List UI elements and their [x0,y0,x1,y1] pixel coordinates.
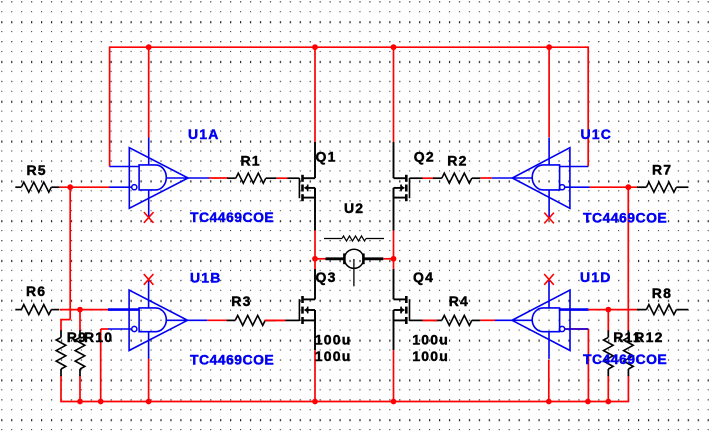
svg-text:100u: 100u [412,348,449,364]
gate driver U1D body [512,290,570,350]
U1C input A stub [560,166,589,168]
no-connect marker X at U1D VDD pin [544,274,554,285]
junction R5-node [67,184,73,190]
junction R8/R11 [605,307,611,313]
wire red overdraw R4 left [423,319,438,321]
transistor Q3 [299,296,315,324]
svg-text:R8: R8 [652,285,672,301]
junction rail/U1D-inputB-drop [585,399,591,405]
wire jog to R9 top [61,319,70,321]
resistor R7 [637,182,688,192]
U1A input A stub [110,166,140,168]
junction rail/U1A-VDD [146,44,152,50]
svg-text:100u: 100u [315,331,352,347]
U1B pin GND (bottom) [148,332,150,359]
wire R10 top [79,310,81,331]
svg-text:R2: R2 [447,152,467,168]
svg-text:U2: U2 [344,200,364,216]
U1C pin GND (bottom) [548,190,550,218]
wire Q4 gate lead [410,319,423,321]
wire Q1 gate lead [288,177,300,179]
U1C output stub [492,177,532,179]
wire U1A output to R1 [209,177,228,179]
svg-text:R5: R5 [27,162,47,178]
gate driver U1B body [129,290,187,350]
junction U2 right [391,256,397,262]
U1D input B stub [565,328,589,330]
wire R2 to Q2 gate [423,177,434,179]
resistor R11 [604,330,614,376]
svg-text:U1B: U1B [190,270,222,286]
svg-text:R4: R4 [449,293,469,309]
junction rail/Q2-drain [391,44,397,50]
U1B pin VDD (top) [148,279,150,308]
U1D input A stub [560,308,589,311]
svg-text:TC4469COE: TC4469COE [583,351,667,367]
resistor R6 [15,305,59,315]
wire Q2 source lead [393,188,395,231]
U1D output stub [495,319,532,321]
svg-text:R10: R10 [84,329,113,345]
svg-text:U1D: U1D [580,269,612,285]
wire U2 right lead [383,258,393,260]
junction R7-node [625,184,631,190]
wire R12 bottom to rail [627,375,629,402]
wire drop x588.4 to bottom rail [587,329,589,402]
wire Q1 drain lead [314,142,316,178]
wire node R7 down to R12 [627,187,629,332]
junction rail/R10 [77,399,83,405]
wire Q2 drain to rail [393,47,395,142]
wire Q3 source lead [314,310,316,350]
svg-text:R3: R3 [231,293,251,309]
wire U1B GND pin to bottom rail [148,359,150,402]
no-connect marker X at U1C GND pin [544,213,554,224]
U1D pin VDD (top) [548,279,550,308]
svg-text:U1A: U1A [188,126,220,142]
wire R6 to U1B input A [60,309,109,311]
resistor R8 [637,305,688,315]
no-connect marker X at U1B VDD pin [144,274,154,285]
svg-text:Q2: Q2 [414,148,435,164]
resistor R2 [433,173,480,183]
U1A inverting input bubble [132,185,137,190]
U1B output stub [166,319,207,321]
resistor R4 [433,315,480,325]
wire drop x100.7 to bottom rail [100,329,102,402]
wire U2 left lead [315,258,326,260]
wire U1D output to R4 [480,319,495,321]
wire bottom GND rail [61,401,628,403]
svg-text:Q1: Q1 [316,148,337,164]
wire U1C output to R2 [480,177,491,179]
svg-text:R12: R12 [634,329,663,345]
resistor R9 [56,330,66,376]
wire U1D input A to R8 [588,309,638,311]
gate driver U1C body [512,148,570,209]
junction rail/Q1-drain [312,44,318,50]
wire Q2 source to U2 right [393,231,395,270]
junction rail/R11 [605,399,611,405]
wire Q1 source lead [314,188,316,231]
no-connect marker X at U1A GND pin [144,212,154,223]
U1D pin GND (bottom) [548,332,550,359]
U1B inverting input bubble [132,326,137,331]
U1A output stub [166,177,209,179]
wire R11 top [607,310,609,332]
wire R11 bottom to rail [607,375,609,401]
wire Q2 gate lead [410,177,423,179]
U1C inverting input bubble [560,185,565,190]
svg-text:TC4469COE: TC4469COE [190,209,274,225]
wire Q1 source to U2 left [314,231,316,270]
junction rail/U1B-GND [146,399,152,405]
wire R9 bottom to bottom rail [60,375,62,402]
svg-text:100u: 100u [412,331,449,347]
wire R1 to Q1 gate [276,177,287,179]
junction rail/Q3 [312,399,318,405]
component U2 winding resistor [324,236,384,241]
wire left drop to U1A input A [109,46,111,166]
wire R10 bottom to rail [79,375,81,401]
wire red overdraw R3-Q3 [265,319,286,321]
wire top VDD rail [110,46,589,48]
svg-text:Q3: Q3 [316,269,337,285]
wire right drop to U1C input A [587,46,589,166]
U1B input B stub [108,328,132,330]
wire R5 to U1A input B [59,186,109,188]
resistor R5 [15,182,59,192]
U1C pin VDD (top) [548,138,550,165]
U1A input B stub [109,186,132,188]
U1C input B stub [565,186,590,188]
svg-text:R1: R1 [241,152,261,168]
svg-text:TC4469COE: TC4469COE [190,351,274,367]
transistor Q1 [299,175,315,201]
component U2 ammeter [326,249,384,286]
wire U1B input B to drop [101,328,109,330]
svg-text:U1C: U1C [581,126,613,142]
wire U1A VDD pin to rail [148,47,150,137]
U1A pin VDD (top) [148,138,150,165]
wire Q3 gate lead [286,319,300,321]
wire U1B output to R3 [207,319,228,321]
U1A pin GND (bottom) [148,190,150,218]
transistor Q2 [394,175,410,201]
U1D inverting input bubble [560,326,565,331]
wire Q4 drain lead [393,269,395,299]
wire Q4 source lead [393,310,395,350]
resistor R1 [227,173,276,183]
wire Q3 drain lead [314,269,316,299]
svg-text:TC4469COE: TC4469COE [583,209,667,225]
junction U2 left [312,256,318,262]
svg-text:R6: R6 [26,283,46,299]
wire Q2 drain lead [393,142,395,178]
wire Q4 source to bottom rail [393,350,395,401]
wire U1C VDD pin to rail [548,47,550,137]
junction rail/U1C-VDD [546,44,552,50]
wire node R5 down [69,187,71,319]
wire Q1 drain to rail [314,47,316,142]
junction rail/Q4 [391,399,397,405]
resistor R3 [227,315,276,325]
wire R4 to Q4 gate [423,319,438,321]
resistor R12 [624,330,634,376]
transistor Q4 [394,296,410,324]
wire U1D GND pin to bottom rail [548,360,550,402]
wire R3 to Q3 gate [265,319,286,321]
wire Q3 source to bottom rail [314,350,316,401]
svg-text:R7: R7 [652,162,672,178]
junction rail/x100.7 [98,399,104,405]
junction R6/R10 [77,307,83,313]
svg-text:Q4: Q4 [413,269,434,285]
gate driver U1A body [129,148,188,209]
wire U1C input B to R7 [590,186,639,188]
svg-text:100u: 100u [315,348,352,364]
wire U1D input B to drop [565,328,588,330]
resistor R10 [75,330,85,376]
U1B input A stub [108,308,139,311]
junction rail/U1D-GND [546,399,552,405]
